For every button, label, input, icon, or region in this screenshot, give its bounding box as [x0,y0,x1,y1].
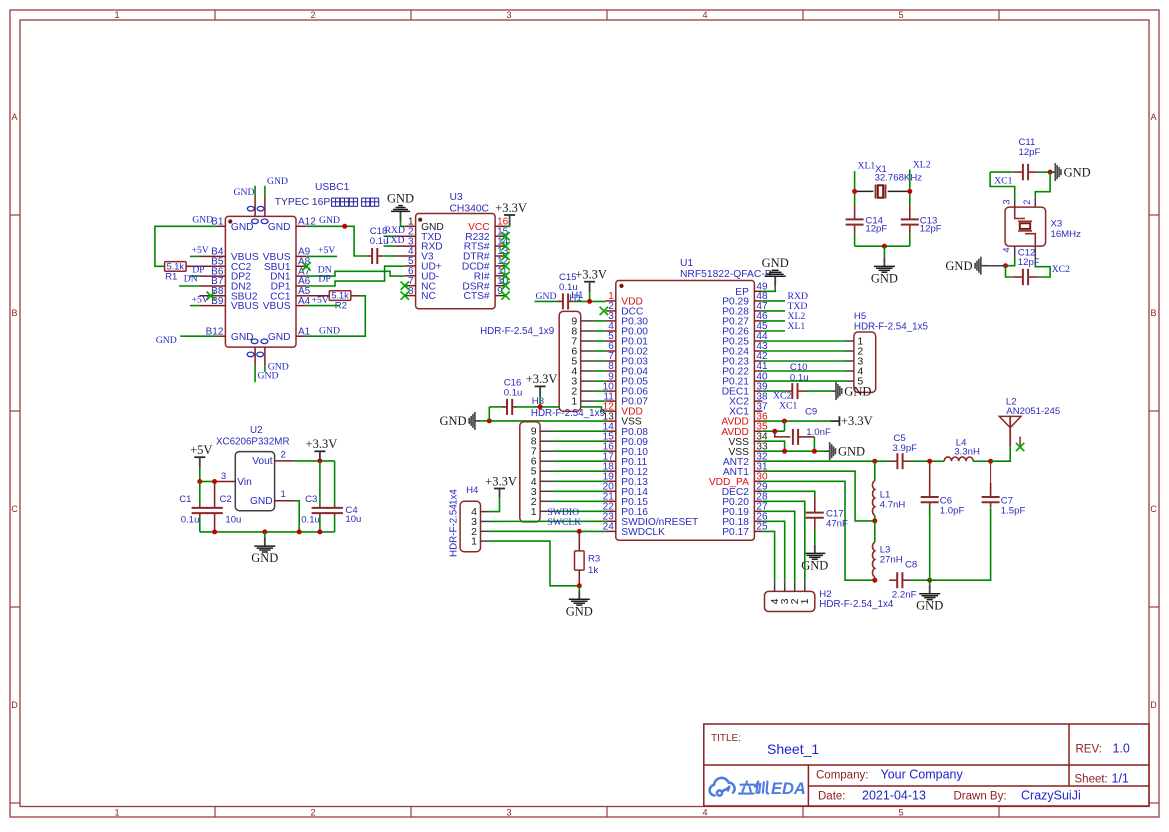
svg-text:GND: GND [231,332,254,343]
svg-text:Company:: Company: [816,770,868,782]
U1 pin 44 P0.25 [754,340,762,342]
U1 pin 25 P0.17 [754,530,762,532]
svg-text:8: 8 [408,286,414,297]
header H1 body [559,311,581,411]
wire H1 pin 8 to U1 [595,330,606,332]
wire TXD U1 pin47 [762,310,785,312]
svg-text:1x4: 1x4 [449,489,460,505]
USBC1 shield pins top [254,197,256,217]
svg-text:HDR-F-2.54_1x9: HDR-F-2.54_1x9 [480,326,554,337]
USBC1 pin B9 [199,305,225,307]
resistor R2 [306,295,329,297]
ground below RF network [916,580,943,613]
svg-text:2: 2 [310,808,315,818]
capacitor C14 [846,205,864,234]
IC U2 body [235,452,274,511]
capacitor C18 [367,248,383,264]
wire VSS33 to GND flag [762,450,824,452]
X3 pin4 stub [1014,246,1016,259]
wire RXD U1 pin48 [762,300,785,302]
H3 pin 4 [540,480,554,482]
svg-text:1: 1 [114,808,119,818]
wire X1 bottom join [855,245,910,247]
USBC1 pin A12 [296,225,306,227]
svg-text:2.2nF: 2.2nF [892,590,917,601]
svg-text:4: 4 [1002,247,1012,252]
U3 pin 4 V3 [396,255,416,257]
wire H1 pin 6 to U1 [595,350,606,352]
junction X1 left [852,189,857,194]
USBC1 pin B4 [199,255,225,257]
svg-text:XL1: XL1 [788,321,806,332]
svg-text:CH340C: CH340C [450,203,490,214]
svg-text:0.1u: 0.1u [504,388,523,399]
svg-text:0.1u: 0.1u [790,373,809,384]
wire U1 P0.17 to H2 pin4 [762,531,774,581]
H4 pin 4 [481,511,490,513]
U3 pin 10 DSR# [495,285,505,287]
wire U1 to H5 pin 3 [762,360,845,362]
svg-text:GND: GND [916,599,943,613]
capacitor C2 [214,482,216,505]
svg-text:GND: GND [844,384,871,398]
svg-text:27nH: 27nH [880,555,903,566]
wire U2 bottom rail [200,531,335,533]
svg-text:1.5pF: 1.5pF [1001,506,1026,517]
USBC1 pin B8 [199,295,225,297]
svg-text:X3: X3 [1051,219,1063,230]
U3 pin 14 RTS# [495,245,505,247]
U1 pin 40 P0.21 [754,380,762,382]
U3 pin 3 RXD [396,245,416,247]
USBC1 pin A4 [296,305,306,307]
svg-text:Vin: Vin [237,477,252,488]
USBC1 shield pads top [247,206,268,223]
capacitor C10 [762,390,787,392]
U1 pin 42 P0.23 [754,360,762,362]
svg-text:Drawn By:: Drawn By: [954,791,1007,803]
capacitor C15 [558,293,573,309]
svg-text:Vout: Vout [252,456,273,467]
svg-text:GND: GND [234,187,255,198]
USBC1 shield pads bottom [247,339,268,357]
svg-text:XL2: XL2 [913,159,931,170]
wire H3 pin 4 to U1 [554,480,606,482]
wire H4 pin4 to +3.3V [490,497,500,512]
svg-text:GND: GND [387,191,414,205]
H1 pin 2 [581,390,595,392]
H5 pin 1 [846,340,854,342]
svg-text:DN: DN [184,274,198,285]
svg-text:1k: 1k [588,565,598,576]
U3 pin 13 DTR# [495,255,505,257]
header H5 body [854,332,876,392]
svg-text:Date:: Date: [818,791,846,803]
ground flag right of C10 [831,382,872,400]
X3 pin3 stub [1014,198,1016,210]
U1 pin 21 P0.15 [606,500,616,502]
H5 pin 3 [846,360,854,362]
wire H3 pin 5 to U1 [554,470,606,472]
U1 pin 34 VSS [754,440,762,442]
wire U1 P0.19 to H2 pin2 [762,511,794,581]
wire H4 pin3 SWDIO to U1 pin23 [490,520,606,522]
wire XL2 U1 pin46 [762,320,785,322]
wire A12 GND to C18 branch [306,226,367,256]
U1 pin 28 P0.20 [754,500,762,502]
U3 pin 7 NC [405,285,416,287]
wire to antenna [991,447,1011,462]
junction VSS33 b [812,449,817,454]
svg-text:1: 1 [471,536,477,548]
USBC1 value chinese glyphs [332,198,340,206]
inductor L1 [874,461,876,481]
svg-text:4.7nH: 4.7nH [880,500,906,511]
U2 pin3 Vin [215,481,236,483]
ground below R3 [566,586,593,619]
+3.3V symbol at U3 VCC [504,215,515,225]
+3.3V symbol above VDD1 [584,282,595,293]
svg-text:10u: 10u [345,514,361,525]
svg-text:+5V: +5V [192,294,209,305]
H5 pin 2 [846,350,854,352]
U1 pin 26 P0.18 [754,520,762,522]
U1 pin 36 AVDD [754,420,762,422]
svg-text:H5: H5 [854,311,866,322]
svg-text:3: 3 [506,808,511,818]
U1 pin 11 P0.07 [606,400,616,402]
U1 pin 5 P0.01 [606,340,616,342]
junction C16/+3.3V [538,404,543,409]
wire AVDD36 to +3.3V [762,420,830,422]
svg-text:2021-04-13: 2021-04-13 [862,789,926,803]
U1 pin 7 P0.03 [606,360,616,362]
svg-text:+3.3V: +3.3V [526,372,558,386]
junction C8 left [872,578,877,583]
U1 pin 23 SWDIO/nRESET [606,520,616,522]
svg-text:TITLE:: TITLE: [711,733,741,744]
wire R2 to A1 GND [351,295,360,297]
wire U1 to H5 pin 1 [762,340,845,342]
svg-text:TYPEC 16P: TYPEC 16P [275,197,331,208]
svg-text:10u: 10u [225,515,241,526]
wire XL1 left branch [854,171,856,205]
svg-text:EDA: EDA [771,780,806,798]
svg-text:REV:: REV: [1076,744,1102,756]
svg-text:5.1k: 5.1k [331,291,349,301]
LCEDA logo cloud [710,778,735,796]
U1 pin 6 P0.02 [606,350,616,352]
junction bottom GND [927,578,932,583]
H2 pin 4 [774,581,776,591]
IC U1 body [616,281,755,541]
svg-text:XC6206P332MR: XC6206P332MR [216,436,290,447]
svg-text:C2: C2 [220,494,232,505]
wire GND flag to U1 VSS pin13 [480,420,606,422]
+5V symbol [194,457,205,467]
wire H3 pin 2 to U1 [554,500,606,502]
U1 pin 48 P0.29 [754,300,762,302]
svg-text:SWDCLK: SWDCLK [621,527,665,538]
ground flag left of X3 [945,257,986,275]
U3 pin 6 UD- [405,275,416,277]
LCEDA logo text 立创EDA [739,781,768,793]
svg-text:1: 1 [281,489,286,500]
header H2 body [765,591,815,611]
U3 pin 12 DCD# [495,265,505,267]
U1 pin 17 P0.11 [606,460,616,462]
inductor L4 [941,460,944,462]
capacitor C1 [199,482,201,505]
svg-text:VBUS: VBUS [263,301,291,312]
junction R3 bottom [577,583,582,588]
svg-text:GND: GND [1064,165,1091,179]
U1 pin 2 DCC [606,310,616,312]
wire +3.3V to U3 pin16 [505,224,510,227]
capacitor C13 [901,205,919,234]
svg-text:+5V: +5V [190,443,212,457]
svg-text:GND: GND [156,335,177,346]
ground above U1 EP [762,286,775,292]
H3 pin 2 [540,500,554,502]
wire +5V A4 [306,305,340,307]
wire bottom to C7 [930,508,991,581]
USBC1 pin-1 dot [228,219,232,223]
svg-text:R1: R1 [165,272,177,283]
svg-text:C8: C8 [905,559,917,570]
svg-text:2: 2 [1022,200,1032,205]
U1 pin 4 P0.00 [606,330,616,332]
svg-text:4: 4 [702,808,707,818]
svg-text:C3: C3 [305,494,317,505]
wire DN A7 to U3 UD- [306,271,405,276]
wire H4 pin2 SWCLK to U1 pin24 [490,530,606,532]
U2 pin2 Vout [275,460,295,462]
wire H3 pin 1 to U1 [554,510,606,512]
X3 pin2 stub [1034,198,1036,210]
svg-text:CrazySuiJi: CrazySuiJi [1021,789,1081,803]
USBC1 pin B7 [199,285,225,287]
junction C1 top [197,479,202,484]
U3 pin 9 CTS# [495,295,505,297]
capacitor C17 branch [762,491,814,497]
capacitor C6 [929,461,931,480]
svg-text:U1: U1 [680,258,693,269]
svg-text:+3.3V: +3.3V [306,437,338,451]
no-connect X at A8 [302,262,310,270]
wire U3 RXD stub [384,245,396,247]
svg-text:GND: GND [250,496,273,507]
wire XL2 right branch [909,170,911,206]
svg-text:+5V: +5V [312,295,329,306]
svg-text:GND: GND [319,326,340,337]
svg-text:GND: GND [192,214,213,225]
U1 pin 22 P0.16 [606,510,616,512]
X3 inner crystal glyph [1015,207,1036,246]
wire U2 GND pin down [294,501,299,532]
USBC1 pin A1 [296,335,306,337]
svg-text:GND: GND [319,215,340,226]
junction RF L1 top [872,459,877,464]
junction C3 top [317,458,322,463]
svg-text:47nF: 47nF [826,519,848,530]
U3 pin 2 TXD [396,235,416,237]
svg-text:C: C [11,504,18,514]
H3 pin 8 [540,440,554,442]
USBC1 pin A5 [296,295,306,297]
USBC1 pin A8 [296,265,306,267]
svg-text:C: C [1150,504,1157,514]
svg-text:0.1u: 0.1u [370,236,389,247]
H1 pin 7 [581,340,595,342]
wire H1 pin 3 to U1 [595,380,606,382]
wire B1 GND to R1 [155,226,218,266]
U1 pin 3 P0.30 [606,320,616,322]
H4 pin 1 [481,540,490,542]
svg-text:GND: GND [268,222,291,233]
U1 pin 1 VDD [606,300,616,302]
title block outline [704,724,1149,806]
svg-text:GND: GND [536,291,557,302]
capacitor C5 [889,453,910,469]
wire GND loop to X3 pin2 [1035,172,1050,198]
U1 pin 19 P0.13 [606,480,616,482]
H3 pin 5 [540,470,554,472]
wire VDD_PA to C8 node [762,481,874,580]
capacitor C4 [334,461,336,505]
wire VSS34 down [762,441,784,451]
wire XL1 U1 pin45 [762,330,785,332]
U1 pin 31 ANT1 [754,470,762,472]
H4 pin 3 [481,520,490,522]
U3 pin-1 dot [418,218,422,222]
U3 pin 16 VCC [495,225,505,227]
U1 pin-1 dot [619,284,623,288]
USBC1 pin B12 [217,335,225,337]
U1 pin 9 P0.05 [606,380,616,382]
svg-text:3: 3 [506,10,511,20]
U1 pin 29 DEC2 [754,490,762,492]
svg-text:1.0: 1.0 [1113,742,1130,756]
+3.3V sideways symbol [830,416,839,426]
USBC1 pin A9 [296,255,306,257]
ground below U2 [251,532,278,565]
wire H3 pin 6 to U1 [554,460,606,462]
svg-text:D: D [11,700,18,710]
R1 lead to B5 [186,265,199,267]
svg-text:USBC1: USBC1 [315,182,350,193]
svg-text:H4: H4 [466,485,479,496]
junction bottom U2 gnd [297,529,302,534]
ground below C17 [814,530,816,541]
wire C5 to C6 node [911,460,942,462]
svg-text:32.768KHz: 32.768KHz [875,172,923,183]
U1 pin 30 VDD_PA [754,480,762,482]
U1 pin 18 P0.12 [606,470,616,472]
USBC1 pin B6 [199,275,225,277]
svg-text:H3: H3 [532,396,544,407]
H2 pin 3 [784,581,786,591]
junction C6 top [927,459,932,464]
U1 pin 47 P0.28 [754,310,762,312]
svg-text:16MHz: 16MHz [1051,229,1082,240]
svg-text:+5V: +5V [318,245,335,256]
wire +5V B4 [190,255,199,257]
wire AVDD35 [762,430,784,432]
U1 pin 33 VSS [754,450,762,452]
svg-text:0.1u: 0.1u [301,515,320,526]
H1 pin 6 [581,350,595,352]
H5 pin 5 [846,380,854,382]
U3 pin 11 RI# [495,275,505,277]
svg-text:4: 4 [769,598,781,604]
+3.3V symbol right [314,451,325,461]
svg-text:C10: C10 [790,362,808,373]
junction X3 gnd [1003,263,1008,268]
wire H1 pin 2 to U1 [595,390,606,392]
ground flag right of C11 [1050,163,1091,181]
H3 pin 3 [540,490,554,492]
U1 pin 16 P0.10 [606,450,616,452]
svg-text:12pF: 12pF [865,224,887,235]
U1 pin 46 P0.27 [754,320,762,322]
U3 pin 8 NC [405,295,416,297]
svg-text:Your Company: Your Company [881,768,964,782]
svg-text:CTS#: CTS# [464,291,490,302]
svg-text:XC1: XC1 [779,400,797,411]
wire U1 P0.20 to H2 pin1 [762,501,804,581]
svg-text:VBUS: VBUS [231,301,259,312]
U3 pin 15 R232 [495,235,505,237]
svg-text:GND: GND [267,176,288,187]
svg-text:GND: GND [838,444,865,458]
junction C7 top [988,459,993,464]
svg-text:NRF51822-QFAC-R: NRF51822-QFAC-R [680,269,772,280]
svg-text:4: 4 [702,10,707,20]
svg-text:C9: C9 [805,407,817,418]
+3.3V symbol for H4 pin4 [494,489,505,498]
svg-text:A: A [1150,112,1156,122]
svg-text:1.0nF: 1.0nF [806,427,831,438]
svg-text:1: 1 [114,10,119,20]
H4 pin 2 [481,530,490,532]
crystal X1 [857,190,909,192]
inductor L3 [874,521,876,542]
U1 pin 37 XC1 [754,410,762,412]
U1 pin 45 P0.26 [754,330,762,332]
wire DN B7 [179,285,199,287]
svg-text:Sheet:: Sheet: [1075,774,1108,786]
wire +5V to Vin [199,467,201,481]
svg-text:GND: GND [566,604,593,618]
svg-text:H1: H1 [569,293,581,304]
svg-text:1.0pF: 1.0pF [940,506,965,517]
wire Vout to +3.3V node and C4 [294,460,334,462]
resistor R1 [165,262,187,272]
junction AVDD36 [782,419,787,424]
svg-text:3.3nH: 3.3nH [954,447,980,458]
crystal X3 body [1005,207,1046,246]
header H3 body [520,422,540,522]
wire DP B6 [190,275,199,277]
resistor R3 [578,531,580,551]
svg-text:2: 2 [310,10,315,20]
U3 pin 1 GND [405,225,416,227]
svg-text:GND: GND [440,414,467,428]
antenna L2 [999,416,1021,446]
capacitor C12 loop [1006,266,1013,277]
wire U1 P0.18 to H2 pin3 [762,521,784,581]
